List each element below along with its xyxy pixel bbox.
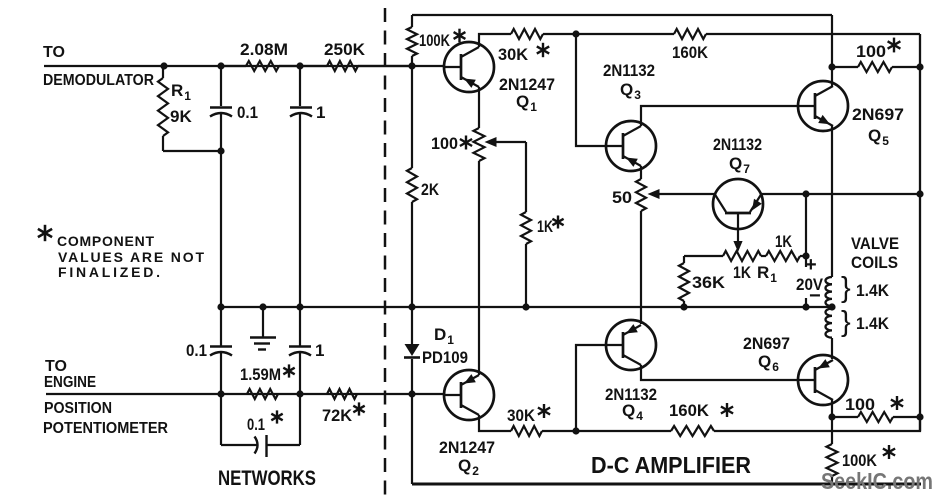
resistor 2K (407, 168, 417, 202)
valve coil upper 1.4K (825, 277, 832, 306)
wire supply upper (805, 194, 807, 256)
wire Q6 emitter down (831, 417, 833, 444)
label DEMODULATOR (43, 72, 154, 89)
wire pot bottom to Q2 (478, 161, 480, 375)
svg-text:POSITION: POSITION (44, 400, 112, 417)
label 2N1132 (Q3) (603, 61, 655, 80)
node rail/column A (217, 303, 224, 310)
svg-text:}: } (841, 306, 851, 338)
resistor R1 9K (158, 66, 168, 151)
label 100K (bottom) (842, 451, 878, 470)
wiper arrow 50 pot (648, 189, 715, 199)
potentiometer 50 (636, 179, 646, 211)
wire Q7 emitter to supply (762, 193, 920, 195)
watermark SeekIC.com (821, 468, 933, 494)
asterisk 1.59M (283, 364, 294, 377)
svg-text:1.4K: 1.4K (856, 281, 890, 300)
wire supply mid (805, 256, 807, 267)
resistor 100K (bottom) (827, 444, 838, 476)
node 100*/right rail (916, 63, 923, 70)
svg-text:100: 100 (856, 42, 886, 61)
diode D1 PD109 (404, 344, 420, 358)
wire bottom rail (412, 483, 921, 486)
wire demodulator input (44, 65, 444, 67)
svg-text:2N1247: 2N1247 (439, 438, 495, 457)
wiper arrow 100 pot (485, 137, 527, 147)
svg-text:COILS: COILS (851, 253, 898, 272)
node Q7/right rail (916, 190, 923, 197)
ground (250, 307, 276, 350)
svg-text:COMPONENT: COMPONENT (57, 233, 154, 249)
label D1 (434, 325, 454, 347)
wire 50 pot to Q4 emitter (640, 211, 642, 324)
wire Q3 emitter (640, 166, 642, 179)
label Q6 (758, 352, 779, 374)
wire coil to Q6 collector (831, 338, 833, 359)
svg-text:TO: TO (45, 358, 67, 375)
wire Q1 emitter (478, 87, 480, 128)
node 100/right rail (bottom) (916, 413, 923, 420)
label 0.1 (bottom) (247, 415, 265, 434)
asterisk 30K bottom (538, 404, 550, 418)
transistor Q5 2N697 (798, 81, 848, 131)
asterisk 100 pot (460, 136, 472, 150)
wire Q5 collector (831, 15, 833, 86)
resistor 30K (top) (511, 29, 543, 39)
label 0.1 (mid) (186, 341, 207, 360)
label 1 (mid) (315, 341, 324, 360)
asterisk 100 bottom (891, 396, 903, 410)
wire 1K* to rail (525, 244, 527, 307)
label PD109 (422, 348, 468, 367)
wire Q1 collector (479, 34, 511, 47)
svg-text:100: 100 (431, 134, 458, 153)
svg-text:30K: 30K (498, 45, 529, 64)
label 1.4K (lower) (856, 314, 890, 333)
svg-text:VALUES ARE NOT: VALUES ARE NOT (58, 249, 204, 265)
wire Q3 collector to Q5 base (641, 106, 798, 126)
label NETWORKS (218, 467, 316, 490)
label TO (engine) (45, 358, 67, 375)
node 1K/supply junction (802, 252, 809, 259)
label 9K (170, 107, 192, 126)
wire Q5 emitter to coils (831, 126, 833, 277)
label 1 (top) (316, 103, 325, 122)
resistor 36K (679, 256, 689, 307)
node engine/column B (296, 390, 303, 397)
label R1 (171, 81, 191, 103)
label 160K (top) (672, 43, 709, 62)
valve coil lower 1.4K (826, 309, 833, 338)
svg-text:2N1132: 2N1132 (603, 61, 655, 80)
asterisk 100K bottom (883, 445, 895, 459)
label 2N1247 (Q1) (499, 75, 555, 94)
node 36K/rail (680, 303, 687, 310)
resistor 1K* (521, 212, 531, 244)
label − (supply) (809, 285, 821, 307)
wire Q2 collector (479, 415, 511, 431)
wire engine input (46, 393, 444, 395)
brace 1.4K lower (841, 306, 851, 338)
wire mid rail (221, 306, 832, 308)
resistor 160K (bottom) (671, 426, 714, 436)
transistor Q4 2N1132 (606, 320, 656, 370)
wire network column A upper (220, 66, 222, 307)
capacitor 0.1* (bottom) (255, 435, 267, 457)
transistor Q7 2N1132 (713, 179, 763, 252)
wire lower cap loop (221, 394, 300, 445)
node coil midpoint (828, 303, 835, 310)
label 100 (top right) (856, 42, 886, 61)
asterisk 1K* (552, 216, 563, 229)
svg-text:2N697: 2N697 (852, 105, 904, 124)
node engine/column A (217, 390, 224, 397)
label 2N1132 (Q7) (713, 135, 762, 154)
label 50 (612, 188, 632, 207)
label COILS (851, 253, 898, 272)
svg-text:SeekIC.com: SeekIC.com (821, 468, 933, 494)
svg-text:1.59M: 1.59M (240, 365, 281, 384)
svg-text:30K: 30K (507, 406, 536, 425)
wire pot to 1K* (525, 142, 527, 212)
label 2N1132 (Q4) (605, 385, 657, 404)
asterisk 30K top (537, 43, 549, 57)
node rail/ground (259, 303, 266, 310)
node Q5 collector/100* (828, 63, 835, 70)
resistor 100* (bottom) (832, 412, 920, 422)
svg-text:1K: 1K (775, 232, 793, 251)
svg-text:1: 1 (316, 103, 325, 122)
transistor Q1 2N1247 (444, 42, 494, 92)
node supply/rail (802, 303, 809, 310)
potentiometer 1K R1 (723, 251, 761, 261)
svg-text:2.08M: 2.08M (240, 40, 288, 59)
svg-text:9K: 9K (170, 107, 192, 126)
note COMPONENT (57, 233, 154, 249)
svg-text:100K: 100K (419, 31, 451, 50)
label 20V (796, 275, 824, 294)
note FINALIZED. (58, 264, 160, 280)
svg-text:160K: 160K (669, 401, 710, 420)
label Q2 (458, 456, 479, 478)
label Q1 (516, 92, 537, 114)
svg-text:2K: 2K (421, 180, 440, 199)
label 2N697 (Q5) (852, 105, 904, 124)
svg-text:100: 100 (845, 395, 875, 414)
label POSITION (44, 400, 112, 417)
resistor 100K (top left) (407, 27, 417, 56)
node Q6 emitter (828, 413, 835, 420)
svg-text:}: } (841, 272, 851, 304)
svg-text:PD109: PD109 (422, 348, 468, 367)
label 2K (421, 180, 440, 199)
note asterisk (38, 225, 52, 241)
svg-text:160K: 160K (672, 43, 709, 62)
label VALVE (851, 234, 899, 253)
svg-text:0.1: 0.1 (237, 103, 258, 122)
node 1K*/rail (522, 303, 529, 310)
label Q5 (868, 126, 889, 148)
label R1 (pot) (757, 263, 777, 285)
label 1K (1K*) (537, 217, 554, 236)
node 30K/160K junction (572, 30, 579, 37)
svg-text:NETWORKS: NETWORKS (218, 467, 316, 490)
wire junction to Q3 base (576, 34, 606, 146)
svg-text:2N1132: 2N1132 (713, 135, 762, 154)
capacitor 0.1 (mid, column A) (210, 307, 232, 394)
svg-text:2N697: 2N697 (743, 334, 790, 353)
label 1.59M (240, 365, 281, 384)
svg-text:50: 50 (612, 188, 632, 207)
brace 1.4K upper (841, 272, 851, 304)
svg-text:1K: 1K (537, 217, 554, 236)
wire 30K to junction (543, 33, 576, 35)
resistor 72K (327, 389, 357, 399)
svg-text:+: + (805, 254, 817, 276)
resistor 160K (top) (674, 29, 706, 39)
label 0.1 (top) (237, 103, 258, 122)
label POTENTIOMETER (43, 420, 168, 437)
label 1K (pot) (733, 263, 752, 282)
capacitor 0.1 (top) (210, 108, 232, 117)
asterisk 160K bottom (721, 403, 733, 417)
resistor 30K (bottom) (511, 426, 542, 436)
wire 30K to 160K junction (542, 430, 671, 432)
svg-text:D-C AMPLIFIER: D-C AMPLIFIER (591, 452, 751, 478)
asterisk 72K (353, 402, 364, 415)
asterisk 100 top right (888, 38, 901, 53)
transistor Q2 2N1247 (444, 370, 494, 420)
resistor 1K (upper) (761, 251, 806, 261)
label Q3 (620, 80, 641, 102)
node demod/left rail (408, 62, 415, 69)
wire R1 bottom (163, 150, 221, 152)
resistor 250K (300, 61, 412, 71)
wire Q6 emitter (831, 400, 833, 417)
asterisk 0.1* (271, 410, 282, 423)
label D-C AMPLIFIER (591, 452, 751, 478)
node rail/column B (296, 303, 303, 310)
resistor 2.08M (221, 61, 300, 71)
label 250K (324, 40, 366, 59)
wire right rail (919, 34, 921, 431)
transistor Q3 2N1132 (606, 121, 656, 171)
node demodulator/R1 junction (160, 62, 167, 69)
label TO (demodulator) (43, 44, 65, 61)
wire 160K to right rail (714, 417, 920, 431)
svg-text:DEMODULATOR: DEMODULATOR (43, 72, 154, 89)
svg-text:VALVE: VALVE (851, 234, 899, 253)
label 30K (top) (498, 45, 529, 64)
svg-text:ENGINE: ENGINE (44, 374, 96, 391)
resistor 1.59M (247, 389, 278, 399)
label 100K (top left) (419, 31, 451, 50)
note VALUES ARE NOT (58, 249, 204, 265)
wire 100K to bottom rail (831, 476, 833, 484)
svg-text:72K: 72K (322, 406, 353, 425)
label 1.4K (upper) (856, 281, 890, 300)
node 30K/160K/Q4 junction (572, 427, 579, 434)
label 2.08M (240, 40, 288, 59)
svg-text:1K: 1K (733, 263, 752, 282)
node column B top (296, 62, 303, 69)
node R1 bottom junction (217, 147, 224, 154)
label 100 (pot) (431, 134, 458, 153)
svg-text:0.1: 0.1 (186, 341, 207, 360)
label 2N697 (Q6) (743, 334, 790, 353)
label 30K (bottom) (507, 406, 536, 425)
wire left rail (411, 15, 413, 484)
label 160K (bottom) (669, 401, 710, 420)
svg-text:250K: 250K (324, 40, 366, 59)
label Q7 (729, 154, 750, 176)
svg-text:36K: 36K (692, 273, 726, 292)
label + (supply) (805, 254, 817, 276)
potentiometer 100* (474, 128, 485, 161)
label 2N1247 (Q2) (439, 438, 495, 457)
asterisk 100K top (454, 29, 466, 43)
svg-text:1: 1 (315, 341, 324, 360)
wire 36K to pot (684, 255, 723, 257)
label 72K (322, 406, 353, 425)
node mid rail/left rail (408, 303, 415, 310)
wire supply lower (805, 298, 807, 307)
label ENGINE (44, 374, 96, 391)
svg-text:TO: TO (43, 44, 65, 61)
resistor 100* (top right) (832, 62, 920, 72)
node Q7/supply junction (802, 190, 809, 197)
transistor Q6 2N697 (798, 355, 848, 405)
wire Q4 base (576, 345, 606, 431)
svg-text:−: − (809, 285, 821, 307)
capacitor 1 (mid, column B) (289, 307, 311, 394)
svg-text:1.4K: 1.4K (856, 314, 890, 333)
node engine/left rail (408, 390, 415, 397)
wire network column B upper (299, 66, 301, 307)
capacitor 1 (top) (290, 108, 312, 117)
label Q4 (622, 401, 643, 423)
wire Q4 collector to Q6 base (641, 365, 798, 380)
label 36K (692, 273, 726, 292)
label 100 (bottom) (845, 395, 875, 414)
node column A top (217, 62, 224, 69)
dashed boundary (384, 8, 387, 500)
svg-text:POTENTIOMETER: POTENTIOMETER (43, 420, 168, 437)
wire 160K rail (576, 33, 920, 35)
wire top rail (412, 14, 832, 16)
svg-text:0.1: 0.1 (247, 415, 265, 434)
label 1K (upper) (775, 232, 793, 251)
